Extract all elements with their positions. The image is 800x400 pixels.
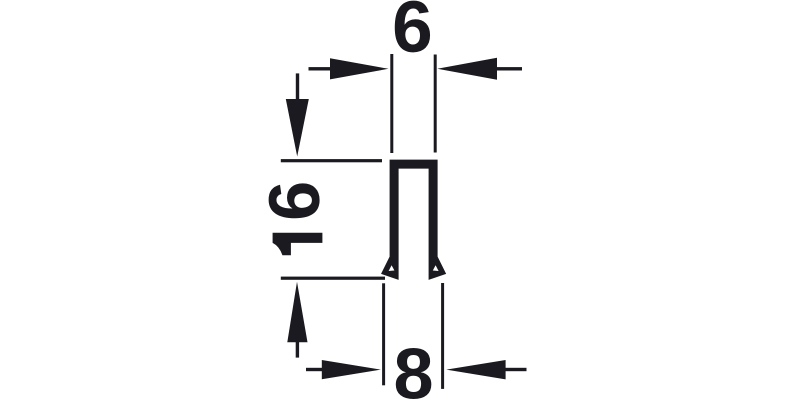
arrowhead right pointing left (8)	[446, 360, 505, 379]
arrowhead left pointing right (8)	[322, 360, 381, 379]
dimension line tail right (6)	[495, 67, 522, 70]
arrowhead right pointing left (6)	[437, 58, 497, 80]
white notch in left foot	[389, 265, 395, 271]
extension line bottom of 16	[281, 277, 385, 280]
down arrowhead (16 top)	[286, 99, 309, 157]
dimension label 16 digit 1 (rotated, custom glyph)	[273, 233, 323, 256]
extension line left of 6	[390, 54, 393, 153]
dimension line tail left (6)	[309, 67, 333, 70]
dimension label 16 digit 6 (rotated)	[269, 183, 320, 218]
dimension label 8 (bottom width)	[396, 348, 432, 399]
arrowhead left pointing right (6)	[330, 58, 389, 79]
up arrowhead (16 bottom)	[287, 282, 307, 343]
white notch in right foot	[433, 265, 439, 271]
dimension line tail right (8)	[504, 368, 527, 371]
extension line top of 16	[281, 159, 382, 162]
U profile body with barbed feet	[381, 160, 446, 280]
vertical tail of up arrow (16 bottom)	[296, 342, 299, 358]
vertical tail of down arrow (16 top)	[296, 73, 299, 100]
extension line left of 8	[382, 283, 385, 385]
extension line right of 8	[441, 283, 444, 389]
dimension line tail left (8)	[306, 368, 324, 371]
extension line right of 6	[434, 55, 437, 153]
dimension label 6 (top width)	[395, 1, 430, 53]
